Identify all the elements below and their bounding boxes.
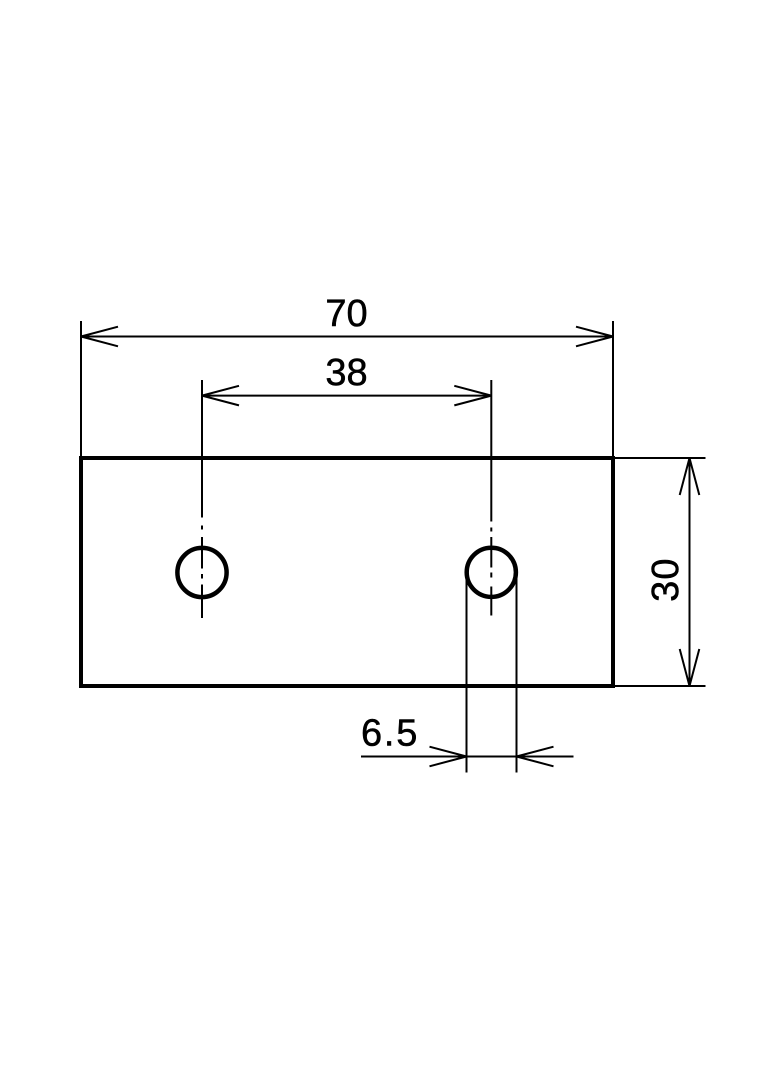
dimension line 6.5 — [361, 756, 574, 758]
arrowhead 6.5 right (points left at right extension line) — [517, 747, 554, 767]
svg-text:30: 30 — [645, 557, 687, 602]
dimension line 38 — [202, 395, 491, 397]
hole left — [177, 548, 226, 597]
extension line 70 right — [612, 321, 614, 458]
svg-text:38: 38 — [325, 352, 367, 394]
hole right — [467, 548, 516, 597]
arrowhead 70 left — [81, 327, 118, 347]
arrowhead 70 right — [576, 327, 613, 347]
centerline right hole — [490, 380, 492, 616]
extension line 6.5 left — [466, 573, 468, 773]
arrowhead 6.5 left (points right at left extension line) — [430, 747, 467, 767]
arrowhead 38 left — [202, 386, 239, 406]
svg-text:6.5: 6.5 — [361, 713, 419, 755]
extension line 30 top — [613, 457, 706, 459]
centerline left hole — [201, 380, 203, 618]
svg-text:70: 70 — [325, 293, 367, 335]
dimension line 30 — [689, 458, 691, 686]
plate outline — [81, 458, 613, 686]
arrowhead 38 right — [454, 386, 491, 406]
arrowhead 30 top — [680, 458, 700, 495]
extension line 30 bottom — [613, 685, 706, 687]
extension line 6.5 right — [516, 573, 518, 773]
arrowhead 30 bottom — [680, 649, 700, 686]
extension line 70 left — [80, 321, 82, 458]
dimension line 70 — [81, 336, 613, 338]
